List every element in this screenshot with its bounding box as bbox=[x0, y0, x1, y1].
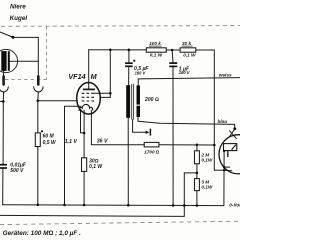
svg-text:0,1 W: 0,1 W bbox=[150, 53, 163, 58]
svg-text:Niere: Niere bbox=[10, 4, 26, 11]
svg-text:100 k: 100 k bbox=[149, 41, 161, 46]
svg-text:160 V: 160 V bbox=[135, 70, 147, 75]
svg-text:0-Volt: 0-Volt bbox=[229, 202, 240, 207]
svg-text:0,1W: 0,1W bbox=[201, 185, 213, 190]
svg-text:weiss: weiss bbox=[219, 72, 232, 77]
svg-text:0,1W: 0,1W bbox=[201, 158, 213, 163]
svg-text:Geräten: 100 MΩ ; 1,0 µF .: Geräten: 100 MΩ ; 1,0 µF . bbox=[3, 230, 81, 237]
svg-text:M: M bbox=[91, 72, 98, 81]
svg-text:blau: blau bbox=[218, 119, 228, 124]
svg-text:160 V: 160 V bbox=[179, 70, 191, 75]
svg-text:0,1 W: 0,1 W bbox=[89, 164, 103, 170]
svg-text:VF14: VF14 bbox=[68, 72, 85, 81]
svg-text:30 k: 30 k bbox=[182, 41, 192, 46]
svg-text:0,1 W: 0,1 W bbox=[183, 53, 196, 58]
svg-text:1700 Ω: 1700 Ω bbox=[144, 149, 159, 154]
svg-text:60 M: 60 M bbox=[43, 133, 55, 139]
svg-text:200 Ω: 200 Ω bbox=[144, 97, 159, 103]
svg-text:1,1 V: 1,1 V bbox=[65, 139, 78, 145]
svg-text:0,5 W: 0,5 W bbox=[43, 140, 57, 146]
svg-text:36 V: 36 V bbox=[97, 138, 108, 144]
svg-text:500 V: 500 V bbox=[10, 168, 24, 174]
svg-text:Kugel: Kugel bbox=[10, 15, 28, 22]
